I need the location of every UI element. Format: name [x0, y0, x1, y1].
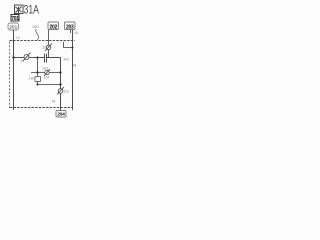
svg-text:74: 74 — [16, 35, 21, 40]
label box 201 (left) — [8, 23, 19, 31]
svg-text:180: 180 — [29, 76, 36, 81]
svg-text:203: 203 — [66, 25, 74, 31]
wire left rail — [13, 30, 15, 110]
label box 202 (middle) — [48, 22, 59, 31]
dashed left line — [9, 42, 11, 109]
gray labels — [16, 24, 80, 104]
component circle-slash on y72 wire — [44, 69, 50, 76]
switch S1 circle-slash — [23, 53, 31, 62]
svg-text:202: 202 — [49, 25, 57, 31]
node dot (60,84) — [59, 83, 61, 85]
wire horizontal y58 left segment — [14, 57, 24, 59]
wire horizontal y72 — [31, 72, 61, 74]
svg-text:M: M — [52, 99, 55, 104]
node dot (72,47) — [71, 46, 73, 48]
transistor circle-slash — [45, 44, 52, 52]
node dot left rail y58 — [12, 56, 14, 58]
label box 204 (bottom) — [56, 111, 66, 118]
svg-text:M: M — [73, 63, 76, 68]
junction dot left rail on dashed line — [13, 40, 15, 42]
svg-text:11x: 11x — [63, 89, 69, 94]
wire y58 mid segment — [30, 57, 45, 59]
wire y58 right segment — [47, 57, 61, 59]
dashed top line — [10, 40, 76, 42]
svg-text:204: 204 — [57, 112, 65, 118]
wire horizontal y84 — [38, 84, 61, 86]
right rail x72 — [72, 30, 74, 110]
vertical rail x60 — [60, 58, 62, 110]
dashed bottom line — [10, 107, 72, 109]
svg-text:1M: 1M — [63, 57, 69, 62]
switch S4 circle-slash on x60 — [57, 87, 64, 95]
vertical wire x37 — [37, 58, 39, 85]
node dot (60,72) — [59, 71, 61, 73]
stub from box 203 — [70, 30, 72, 33]
figure title 图31A — [15, 5, 24, 14]
capacitor plates — [45, 54, 47, 63]
svg-text:1b: 1b — [74, 30, 79, 35]
bottom wire into box 204 — [60, 109, 62, 111]
svg-text:181: 181 — [42, 66, 49, 71]
leader squiggle from label 180 — [36, 29, 39, 40]
node dot (37,84) — [36, 83, 38, 85]
svg-text:1M: 1M — [44, 75, 50, 80]
transistor lead from box 202 — [48, 30, 50, 45]
svg-text:31A: 31A — [24, 3, 40, 17]
svg-text:180: 180 — [32, 24, 39, 29]
node dot (37,72) — [36, 71, 38, 73]
svg-text:201: 201 — [9, 25, 17, 31]
svg-text:701: 701 — [11, 16, 19, 22]
transistor lower lead — [48, 50, 50, 58]
node dot (37,57.5) — [36, 56, 38, 58]
L-wire to right rail — [64, 42, 73, 48]
component box on x37 — [35, 77, 41, 82]
label box 700 (top-left) — [11, 15, 19, 23]
label box 203 (right) — [65, 22, 76, 31]
